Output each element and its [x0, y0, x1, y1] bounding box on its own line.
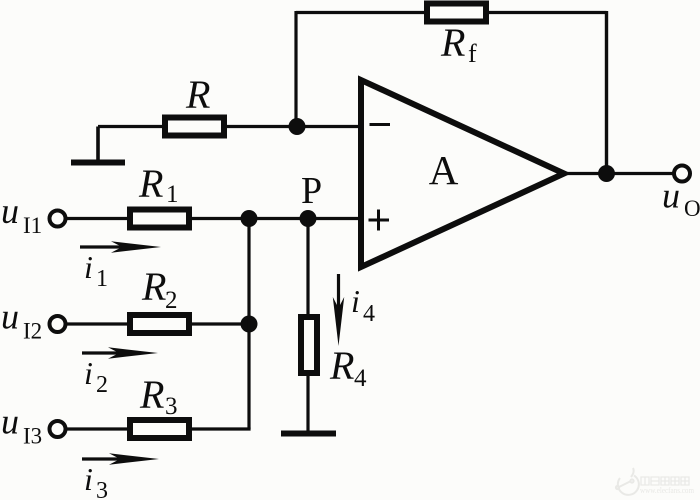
- resistor R: [165, 118, 224, 136]
- svg-text:i: i: [351, 283, 360, 319]
- svg-text:R: R: [139, 372, 164, 417]
- resistor R3: [130, 420, 189, 438]
- ground symbol G2: [281, 431, 336, 437]
- wire: node P down to R4: [306, 219, 309, 318]
- label R3: [139, 372, 178, 420]
- svg-text:R: R: [185, 72, 210, 117]
- label u_I2: [1, 297, 42, 344]
- junction dot: summing column row2: [241, 316, 258, 333]
- svg-text:u: u: [1, 402, 19, 442]
- svg-text:R: R: [440, 20, 465, 65]
- svg-text:3: 3: [165, 393, 178, 420]
- resistor R1: [130, 210, 189, 228]
- svg-text:u: u: [1, 297, 19, 337]
- svg-text:3: 3: [96, 478, 108, 500]
- svg-text:1: 1: [96, 266, 108, 292]
- svg-text:2: 2: [165, 287, 178, 314]
- svg-text:i: i: [84, 355, 93, 391]
- wire: output: [564, 172, 674, 175]
- op-amp A body: [361, 80, 564, 267]
- wire: input row 3: [66, 427, 251, 430]
- label u_I3: [1, 402, 42, 449]
- svg-text:2: 2: [96, 372, 108, 398]
- junction dot: output node: [598, 165, 615, 182]
- svg-text:I3: I3: [23, 424, 42, 449]
- wire: input row 2: [66, 322, 249, 325]
- wire: feedback top horizontal: [296, 11, 607, 14]
- svg-text:i: i: [84, 249, 93, 285]
- svg-text:P: P: [301, 170, 322, 212]
- svg-text:u: u: [1, 191, 19, 231]
- wire: inverting input row: [98, 125, 361, 128]
- junction dot: node P: [300, 210, 317, 227]
- op-amp inverting pin mark (minus): [370, 123, 391, 126]
- svg-text:u: u: [662, 176, 680, 216]
- terminal u_I1: [50, 211, 66, 227]
- svg-text:4: 4: [354, 365, 367, 392]
- current arrow i1: [80, 241, 161, 252]
- current arrow i2: [82, 347, 158, 358]
- label R2: [141, 264, 178, 314]
- svg-text:1: 1: [166, 181, 179, 208]
- label R1: [138, 161, 179, 208]
- svg-text:www.elecfans.com: www.elecfans.com: [640, 486, 695, 495]
- svg-text:O: O: [684, 196, 700, 221]
- resistor R2: [130, 315, 189, 333]
- label i4: [351, 283, 375, 327]
- ground symbol G1: [71, 127, 125, 163]
- terminal u_O: [674, 166, 690, 182]
- label Rf: [440, 20, 477, 68]
- label i1: [84, 249, 108, 292]
- svg-text:I2: I2: [23, 319, 42, 344]
- resistor Rf: [427, 4, 486, 22]
- svg-text:R: R: [141, 264, 166, 309]
- watermark text: [641, 477, 689, 485]
- wire: R4 to ground: [306, 373, 309, 433]
- wire: summing column vertical: [247, 219, 250, 430]
- terminal u_I3: [50, 421, 66, 437]
- svg-text:A: A: [429, 147, 459, 193]
- junction dot: summing column top: [241, 210, 258, 227]
- current arrow i3: [82, 453, 159, 464]
- svg-text:4: 4: [363, 301, 375, 327]
- label u_O: [662, 176, 700, 222]
- svg-text:I1: I1: [23, 213, 42, 238]
- svg-text:R: R: [138, 161, 163, 206]
- wire: non-inverting input row: [66, 217, 361, 220]
- terminal u_I2: [50, 316, 66, 332]
- label R4: [329, 343, 367, 392]
- wire: feedback right vertical: [605, 11, 608, 174]
- resistor R4: [301, 317, 317, 373]
- svg-text:i: i: [84, 461, 93, 497]
- svg-text:R: R: [329, 343, 354, 388]
- label u_I1: [1, 191, 42, 238]
- svg-text:f: f: [468, 39, 477, 68]
- label i3: [84, 461, 108, 500]
- op-amp non-inverting pin mark (plus): [369, 210, 390, 231]
- label i2: [84, 355, 108, 398]
- current arrow i4: [333, 274, 344, 346]
- wire: feedback left vertical: [294, 11, 297, 127]
- watermark logo (elecfans): [616, 468, 639, 495]
- junction dot: feedback to inverting input: [289, 118, 306, 135]
